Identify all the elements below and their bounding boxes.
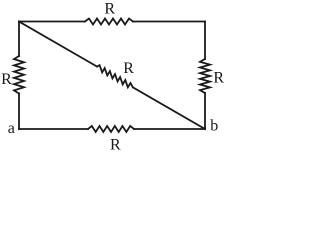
wire bottom-left horizontal: [19, 128, 88, 130]
wire right upper vertical: [204, 22, 206, 60]
svg-text:R: R: [1, 71, 12, 88]
node b label: [210, 118, 218, 135]
svg-text:R: R: [110, 137, 121, 154]
label R5 value R: [123, 60, 134, 77]
resistor R1 top: [85, 19, 133, 25]
node a label: [8, 120, 15, 137]
wire left upper vertical: [18, 22, 20, 57]
resistor R5 diagonal: [97, 65, 133, 87]
wire right lower vertical: [204, 93, 206, 129]
svg-text:a: a: [8, 120, 15, 137]
svg-text:R: R: [213, 69, 224, 86]
wire left lower vertical: [18, 94, 20, 130]
wire bottom-right horizontal: [134, 128, 205, 130]
wire diagonal lower (to node b): [133, 87, 205, 129]
label R4 value R: [110, 137, 121, 154]
label R1 value R: [104, 1, 115, 18]
svg-text:b: b: [210, 118, 218, 135]
wire top-right horizontal: [133, 21, 205, 23]
label R3 value R: [213, 69, 224, 86]
label R2 value R: [1, 71, 12, 88]
resistor R4 bottom: [88, 126, 134, 132]
wire top-left horizontal: [19, 21, 85, 23]
svg-text:R: R: [123, 60, 134, 77]
svg-text:R: R: [104, 1, 115, 18]
wire diagonal upper (from top-left corner): [19, 22, 97, 67]
resistor R3 right: [200, 59, 210, 93]
resistor R2 left: [14, 56, 24, 94]
